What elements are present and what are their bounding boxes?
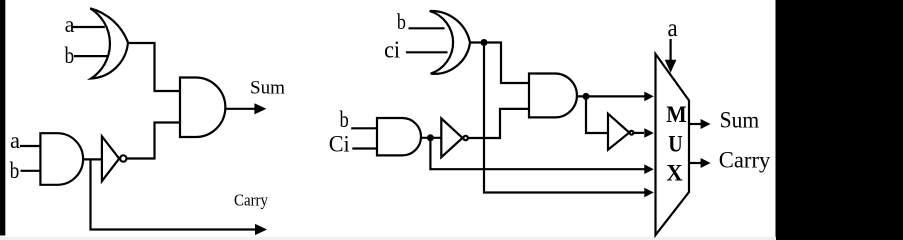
svg-text:M: M — [666, 102, 687, 128]
svg-text:X: X — [666, 161, 682, 187]
svg-text:b: b — [340, 107, 349, 132]
svg-text:Sum: Sum — [720, 108, 760, 133]
svg-text:Sum: Sum — [250, 78, 285, 99]
svg-text:b: b — [65, 43, 75, 68]
svg-text:ci: ci — [384, 38, 400, 64]
svg-text:a: a — [10, 128, 20, 153]
svg-text:a: a — [65, 12, 75, 37]
svg-text:U: U — [668, 132, 683, 158]
svg-text:Carry: Carry — [234, 191, 268, 210]
svg-text:a: a — [668, 15, 678, 42]
svg-text:Carry: Carry — [719, 148, 771, 173]
svg-text:b: b — [10, 158, 20, 183]
svg-text:b: b — [397, 9, 406, 34]
svg-text:Ci: Ci — [329, 132, 350, 157]
